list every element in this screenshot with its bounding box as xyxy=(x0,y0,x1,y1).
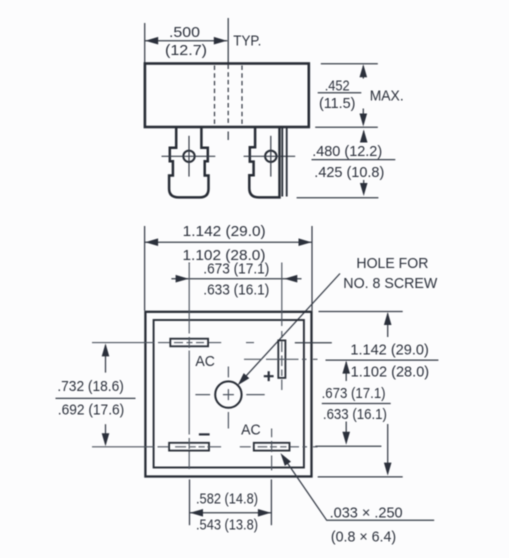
dashed centerline inside body xyxy=(227,65,229,127)
vertical centerline + slot (doubles as extension line) xyxy=(281,263,283,391)
left dim .732: arrow up xyxy=(105,346,107,373)
rear terminal plate edge-on xyxy=(282,128,286,197)
dim line .582 xyxy=(190,512,272,514)
centerline dash below body xyxy=(227,132,229,141)
fraction bar left xyxy=(56,397,136,399)
svg-text:.673 (17.1): .673 (17.1) xyxy=(322,386,386,402)
svg-text:AC: AC xyxy=(195,354,215,370)
horizontal centerline + slot xyxy=(244,358,318,360)
svg-text:.425 (10.8): .425 (10.8) xyxy=(314,165,384,181)
centerline above body xyxy=(227,18,229,63)
left tab hole xyxy=(183,151,194,162)
svg-text:.633 (16.1): .633 (16.1) xyxy=(203,283,269,299)
label minus xyxy=(199,433,210,435)
svg-text:.673 (17.1): .673 (17.1) xyxy=(203,261,269,277)
outer square xyxy=(145,312,311,477)
dimension line .500 xyxy=(145,40,228,42)
svg-text:1.102 (28.0): 1.102 (28.0) xyxy=(351,365,430,381)
bottom extension line left xyxy=(189,479,191,525)
dashes inside bottom-center slot xyxy=(258,446,287,448)
dashes inside bottom-left slot xyxy=(175,446,205,448)
svg-text:.452: .452 xyxy=(325,78,350,94)
extension line outer right xyxy=(311,226,313,311)
mounting hole circle xyxy=(215,381,241,407)
svg-text:.692 (17.6): .692 (17.6) xyxy=(58,402,125,418)
slot AC bottom-center xyxy=(254,443,290,451)
label + xyxy=(264,371,274,381)
vertical centerline bottom-center slot xyxy=(271,429,273,471)
dim arrow down .425 xyxy=(363,180,365,193)
horizontal centerline AC top slot xyxy=(92,342,254,344)
svg-text:.543 (13.8): .543 (13.8) xyxy=(196,518,258,534)
extension line right slot bottom centerline xyxy=(315,445,381,447)
dim arrow up .480 xyxy=(363,131,365,141)
svg-text:TYP.: TYP. xyxy=(233,34,261,50)
left tab crosshair vertical xyxy=(188,136,190,177)
dim arrow down 1.142 right xyxy=(387,424,389,473)
svg-text:MAX.: MAX. xyxy=(370,88,404,104)
dashed line inside body right xyxy=(241,66,243,127)
svg-text:.582 (14.8): .582 (14.8) xyxy=(196,491,258,507)
svg-text:NO. 8 SCREW: NO. 8 SCREW xyxy=(343,276,437,292)
svg-text:(12.7): (12.7) xyxy=(165,43,207,59)
dim line .673 top xyxy=(171,278,301,280)
extension line slot-center left (merges with slot centerline) xyxy=(188,263,190,264)
svg-text:(0.8 × 6.4): (0.8 × 6.4) xyxy=(331,529,396,545)
dim line 1.142 top xyxy=(145,241,312,243)
leader to hole xyxy=(243,274,340,380)
fraction bar .480 xyxy=(312,159,396,161)
fraction bar right 2 xyxy=(322,403,391,405)
leader slot size xyxy=(285,460,434,521)
svg-text:1.142 (29.0): 1.142 (29.0) xyxy=(350,343,429,359)
right terminal tab xyxy=(249,128,279,197)
extension line outer left xyxy=(144,226,146,311)
right tab hole xyxy=(265,151,276,162)
dim arrow down .452 xyxy=(362,109,364,124)
extension line right bottom edge xyxy=(318,476,403,478)
extension line right top edge xyxy=(319,311,403,313)
left dim .732: arrow down xyxy=(105,424,107,444)
extension line right slot centerline xyxy=(295,342,332,344)
extension line left (body left edge) xyxy=(144,23,146,63)
svg-text:.033 × .250: .033 × .250 xyxy=(330,506,403,522)
slot + right xyxy=(278,340,285,378)
slot AC top-left xyxy=(170,339,208,347)
vertical centerline left slots xyxy=(188,263,190,469)
left terminal tab xyxy=(169,128,208,197)
svg-text:.480 (12.2): .480 (12.2) xyxy=(312,144,382,160)
right tab crosshair horizontal xyxy=(244,155,296,157)
fraction bar .452 xyxy=(318,92,362,94)
horizontal centerline bottom slots xyxy=(92,446,318,448)
svg-text:.633 (16.1): .633 (16.1) xyxy=(323,407,387,423)
svg-text:AC: AC xyxy=(241,422,261,438)
dim arrow up .452 xyxy=(362,66,364,79)
inner square xyxy=(154,320,304,468)
dim arrow down .673 right xyxy=(345,422,347,442)
svg-text:.500: .500 xyxy=(169,25,200,41)
fraction bar right 1 xyxy=(326,359,439,361)
svg-text:1.142 (29.0): 1.142 (29.0) xyxy=(183,224,266,240)
dim arrow up .673 right xyxy=(345,362,347,381)
extension line tab bottom xyxy=(297,197,379,199)
extension line body bottom right xyxy=(315,126,378,128)
svg-text:HOLE FOR: HOLE FOR xyxy=(356,256,428,272)
left tab crosshair horizontal xyxy=(162,155,216,157)
bottom extension line right xyxy=(270,479,272,525)
svg-text:(11.5): (11.5) xyxy=(319,96,356,112)
dim arrow up 1.142 right xyxy=(387,314,389,338)
hole center mark xyxy=(195,367,264,429)
slot - bottom-left xyxy=(169,443,209,451)
svg-text:.732 (18.6): .732 (18.6) xyxy=(57,379,124,395)
right tab crosshair vertical xyxy=(270,136,272,177)
dashed line inside body left xyxy=(214,66,216,127)
extension line body top right xyxy=(321,63,378,65)
body rectangle xyxy=(145,64,309,128)
